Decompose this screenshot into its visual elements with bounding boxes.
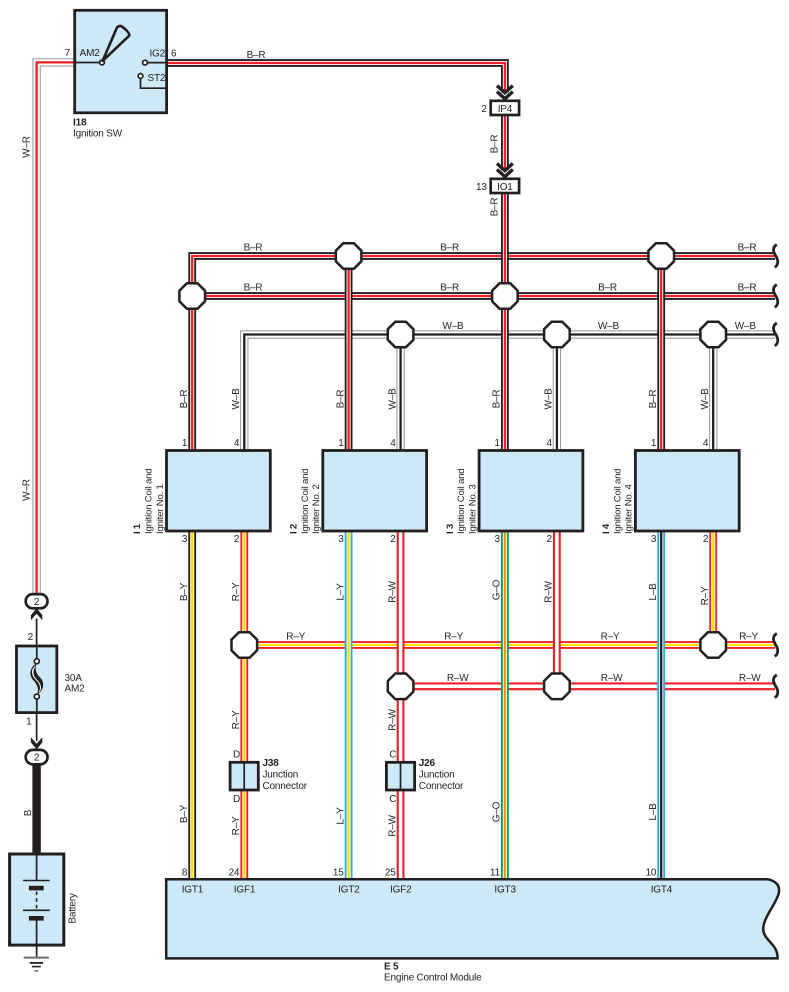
junction R-W bus / I2 pin 2 [388,674,414,700]
svg-text:25: 25 [385,868,396,879]
svg-text:W–B: W–B [442,321,464,332]
ignition switch I18 box [75,10,167,113]
ignition switch ST2 contact [138,74,143,79]
svg-text:2: 2 [481,104,487,115]
svg-text:I 4: I 4 [601,523,612,534]
svg-text:W–B: W–B [598,321,620,332]
svg-text:L–B: L–B [648,583,659,601]
fuse element wire top [36,646,38,659]
svg-text:IGT2: IGT2 [338,885,360,896]
svg-text:B–R: B–R [492,390,503,409]
wire B-R from IO1 down to I3 pin 1 [501,193,509,452]
ground symbol [24,958,49,971]
svg-text:4: 4 [390,438,396,449]
ignition coil and igniter I3 box [479,451,583,532]
break mark R-W bus [773,675,777,698]
svg-text:B–R: B–R [490,135,501,154]
svg-text:L–Y: L–Y [335,583,346,601]
svg-text:B–R: B–R [247,50,266,61]
svg-text:C: C [389,794,396,805]
junction R-Y bus / I1 pin 2 [232,632,258,658]
svg-text:I 3: I 3 [445,524,456,534]
svg-text:B: B [23,809,34,816]
wire B-R bus 1 (top, with corner down to I1 pin 1) [192,256,775,452]
svg-text:J26: J26 [419,758,436,769]
svg-text:B–R: B–R [179,390,190,409]
battery dashed center link [36,892,38,909]
fuse element bottom contact [34,694,39,699]
battery plate short thick 2 [29,916,44,921]
wire W-R from ignition SW pin 7 down to connector [37,62,75,594]
wire W-B bus (with corner down to I1 pin 4) [244,335,775,452]
svg-text:AM2: AM2 [80,48,101,59]
svg-text:IP4: IP4 [498,104,513,115]
break mark B-R bus 2 [773,285,777,308]
svg-text:W–B: W–B [231,388,242,410]
ignition coil and igniter I4 box [635,451,739,532]
svg-text:R–Y: R–Y [739,632,758,643]
battery plate long 2 [23,909,50,911]
connector arrows into IP4 [497,86,513,99]
svg-text:R–Y: R–Y [231,816,242,835]
svg-text:Ignition Coil and: Ignition Coil and [612,469,623,534]
svg-text:R–Y: R–Y [700,586,711,605]
ignition coil and igniter I1 box [167,451,271,532]
svg-text:W–B: W–B [735,321,757,332]
svg-text:1: 1 [495,438,501,449]
svg-text:E 5: E 5 [384,962,399,973]
svg-text:J38: J38 [263,758,280,769]
svg-text:W–B: W–B [544,388,555,410]
svg-text:2: 2 [34,597,40,608]
fuse element wire bottom [36,699,38,713]
svg-text:W–R: W–R [22,136,33,158]
svg-text:1: 1 [182,438,188,449]
junction B-R bus1 / I4 pin 1 [648,243,674,269]
svg-text:2: 2 [703,534,709,545]
svg-text:R–W: R–W [387,708,398,730]
wire W-B branch to I3 pin 4 [553,335,561,452]
svg-text:2: 2 [547,534,553,545]
svg-text:2: 2 [234,534,240,545]
svg-text:11: 11 [490,868,501,879]
svg-text:13: 13 [476,182,487,193]
svg-text:Ignition Coil and: Ignition Coil and [456,469,467,534]
ignition switch AM2 pin line [75,62,100,64]
wire R-Y from I1 pin 2 through J38 to ECM IGF1 [240,530,248,880]
svg-text:B–R: B–R [738,283,757,294]
svg-text:10: 10 [645,868,656,879]
ignition switch lever [103,26,130,61]
svg-text:IG2: IG2 [149,49,165,60]
wire R-W bus (IGF2) [401,682,775,690]
svg-text:B–Y: B–Y [179,804,190,823]
svg-text:R–Y: R–Y [286,632,305,643]
wire B-R branch to I4 pin 1 [657,256,665,452]
svg-text:B–R: B–R [490,198,501,217]
svg-text:8: 8 [182,868,188,879]
connector 2 (female) on W-R wire [26,594,48,608]
connector arrow (male) up into connector 2 [31,608,42,620]
svg-text:IGT3: IGT3 [494,885,516,896]
break mark W-B bus [773,323,777,346]
fuse element S-curve [30,663,43,695]
svg-text:7: 7 [65,48,71,59]
svg-text:R–Y: R–Y [444,632,463,643]
connector arrow (male) down into connector 2 [31,737,42,749]
connector 2 (female) above battery wire [26,750,48,764]
junction B-R bus1 / I2 pin 1 [336,243,362,269]
svg-text:R–W: R–W [387,814,398,836]
fuse element top contact [34,659,39,664]
junction R-Y bus / I4 pin 2 [700,632,726,658]
connector IP4 box [491,101,519,115]
svg-text:15: 15 [333,868,344,879]
svg-text:I18: I18 [73,118,87,129]
svg-text:1: 1 [338,438,344,449]
svg-text:2: 2 [28,632,34,643]
wire R-Y bus (IGF1) [244,641,775,649]
svg-text:Igniter No. 1: Igniter No. 1 [155,484,166,534]
junction connector J38 box [230,762,258,790]
svg-text:R–Y: R–Y [601,632,620,643]
svg-text:Igniter No. 4: Igniter No. 4 [624,483,635,534]
svg-text:R–W: R–W [739,673,761,684]
svg-text:Engine Control Module: Engine Control Module [384,973,482,984]
svg-text:B–R: B–R [335,390,346,409]
wire W-B branch to I2 pin 4 [396,335,404,452]
wire fuse to connector [36,619,38,647]
ignition switch AM2 contact [100,60,105,65]
svg-text:R–W: R–W [387,580,398,602]
junction W-B bus / I3 pin 4 [544,322,570,348]
wire B (battery) thick black [32,764,40,857]
fuse 30A AM2 box [17,646,57,713]
battery internal wire bottom [36,921,38,958]
wire fuse pin 1 down [36,713,38,741]
svg-text:ST2: ST2 [148,73,166,84]
svg-text:Connector: Connector [263,781,308,792]
svg-text:IGT4: IGT4 [651,885,673,896]
svg-text:B–R: B–R [440,243,459,254]
svg-text:R–W: R–W [447,673,469,684]
svg-text:G–O: G–O [492,579,503,600]
svg-text:D: D [233,750,240,761]
svg-text:R–Y: R–Y [231,582,242,601]
svg-text:Junction: Junction [263,770,299,781]
svg-text:D: D [233,794,240,805]
svg-text:1: 1 [26,717,32,728]
svg-text:24: 24 [229,868,240,879]
svg-text:B–R: B–R [598,283,617,294]
svg-text:Igniter No. 2: Igniter No. 2 [311,484,322,534]
svg-text:B–R: B–R [244,243,263,254]
svg-text:Igniter No. 3: Igniter No. 3 [467,484,478,534]
svg-text:3: 3 [182,534,188,545]
junction B-R bus2 / I1 branch [179,283,205,309]
svg-text:B–Y: B–Y [179,582,190,601]
ignition coil and igniter I2 box [323,451,427,532]
junction R-W bus / I3 pin 2 [544,674,570,700]
svg-text:3: 3 [338,534,344,545]
connector IO1 box [491,179,519,193]
svg-text:3: 3 [651,534,657,545]
battery internal wire top [36,855,38,880]
svg-text:B–R: B–R [440,283,459,294]
battery plate short thick (negative) [29,886,44,891]
connector arrows into IO1 [497,164,513,177]
svg-text:Connector: Connector [419,781,464,792]
wire W-B branch to I4 pin 4 [709,335,717,452]
svg-text:4: 4 [547,438,553,449]
break mark B-R bus 1 [773,245,777,268]
wire B-R bus 2 [192,292,775,300]
wire B-Y from I1 pin 3 to ECM IGT1 [188,530,196,880]
svg-text:2: 2 [390,534,396,545]
svg-text:4: 4 [703,438,709,449]
wire R-W from I2 pin 2 through J26 to ECM IGF2 [397,530,405,880]
wire L-B from I4 pin 3 to ECM IGT4 [657,530,665,880]
wire B-R from IP4 to IO1 [501,115,509,170]
svg-text:IGF1: IGF1 [234,885,256,896]
junction connector J26 box [386,762,414,790]
svg-text:30A: 30A [65,673,83,684]
wire B-R from IG2 pin 6 to connector IP4 [167,63,505,93]
wire L-Y from I2 pin 3 to ECM IGT2 [345,530,353,880]
svg-text:Ignition SW: Ignition SW [73,129,123,140]
svg-text:W–R: W–R [22,479,33,501]
junction W-B bus / I2 pin 4 [388,322,414,348]
svg-text:1: 1 [651,438,657,449]
break mark R-Y bus [773,634,777,657]
battery box [10,854,64,945]
svg-text:IGT1: IGT1 [182,885,204,896]
svg-text:R–W: R–W [601,673,623,684]
svg-text:B–R: B–R [244,283,263,294]
svg-text:W–B: W–B [700,388,711,410]
svg-text:B–R: B–R [648,390,659,409]
svg-text:I 1: I 1 [132,523,143,534]
svg-text:IO1: IO1 [497,182,513,193]
svg-text:Junction: Junction [419,770,455,781]
svg-text:G–O: G–O [492,801,503,822]
svg-text:AM2: AM2 [65,684,86,695]
svg-text:C: C [389,750,396,761]
junction B-R bus2 / main feed [492,283,518,309]
svg-text:2: 2 [34,753,40,764]
svg-text:Battery: Battery [68,893,79,923]
svg-text:L–Y: L–Y [335,807,346,825]
wire R-Y from I4 pin 2 to R-Y bus [709,530,717,645]
ignition switch IG2 contact [143,60,148,65]
svg-text:B–R: B–R [738,243,757,254]
engine control module E5 box [166,879,779,958]
ignition switch IG2 pin line [147,62,166,64]
svg-text:R–Y: R–Y [231,710,242,729]
wire B-R branch to I2 pin 1 [345,256,353,452]
wire G-O from I3 pin 3 to ECM IGT3 [501,530,509,880]
junction W-B bus / I4 pin 4 [700,322,726,348]
svg-text:3: 3 [495,534,501,545]
ignition switch ST2 pin line [141,78,167,88]
svg-text:W–B: W–B [387,388,398,410]
svg-text:6: 6 [171,49,177,60]
svg-text:IGF2: IGF2 [390,885,412,896]
svg-text:Ignition Coil and: Ignition Coil and [300,469,311,534]
wire R-W from I3 pin 2 to R-W bus [553,530,561,686]
svg-text:4: 4 [234,438,240,449]
battery plate long (positive) [23,880,50,882]
svg-text:R–W: R–W [544,580,555,602]
svg-text:Ignition Coil and: Ignition Coil and [144,469,155,534]
svg-text:I 2: I 2 [289,524,300,534]
svg-text:L–B: L–B [648,803,659,821]
